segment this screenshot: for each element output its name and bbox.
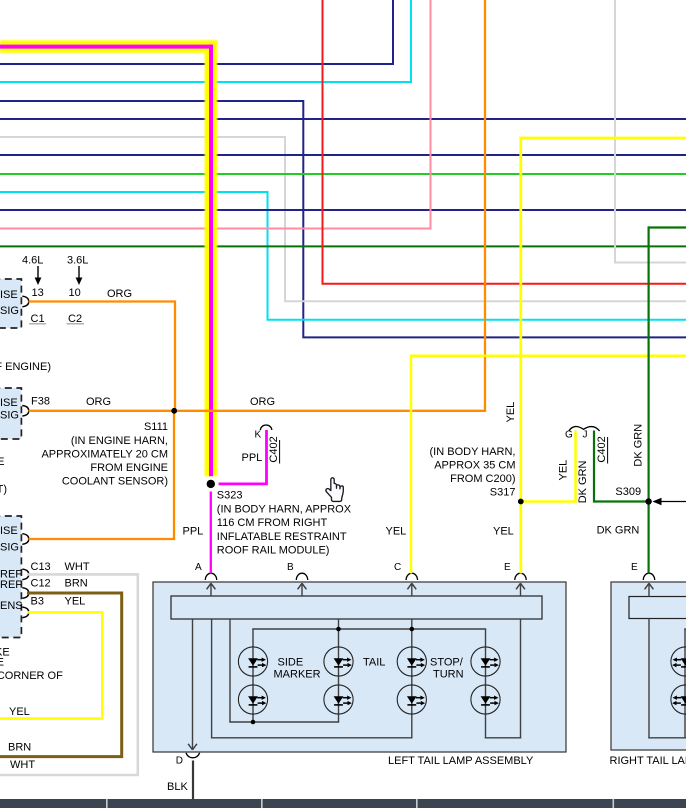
svg-text:S323: S323 xyxy=(217,490,243,502)
svg-text:ROOF RAIL MODULE): ROOF RAIL MODULE) xyxy=(217,544,330,556)
svg-text:TAIL: TAIL xyxy=(363,657,385,669)
svg-text:YEL: YEL xyxy=(558,460,570,481)
svg-text:LEFT TAIL LAMP ASSEMBLY: LEFT TAIL LAMP ASSEMBLY xyxy=(388,755,534,767)
svg-text:YEL: YEL xyxy=(65,596,86,608)
svg-text:D: D xyxy=(176,756,183,767)
svg-text:APPROXIMATELY 20 CM: APPROXIMATELY 20 CM xyxy=(41,448,168,460)
svg-text:E: E xyxy=(504,562,511,573)
svg-text:ORG: ORG xyxy=(86,396,111,408)
svg-text:REF: REF xyxy=(0,579,22,591)
svg-text:13: 13 xyxy=(32,287,44,299)
svg-text:DK GRN: DK GRN xyxy=(597,525,640,537)
svg-text:PPL: PPL xyxy=(183,526,204,538)
svg-text:BRN: BRN xyxy=(65,578,88,590)
svg-text:K: K xyxy=(255,430,262,441)
svg-text:FROM C200): FROM C200) xyxy=(450,473,515,485)
svg-text:E: E xyxy=(0,657,4,669)
svg-text:4.6L: 4.6L xyxy=(22,255,43,267)
svg-text:S317: S317 xyxy=(490,487,516,499)
svg-text:S111: S111 xyxy=(144,421,168,433)
svg-text:ISE: ISE xyxy=(0,525,18,537)
svg-text:APPROX 35 CM: APPROX 35 CM xyxy=(434,459,515,471)
svg-text:WHT: WHT xyxy=(10,759,35,771)
svg-text:C402: C402 xyxy=(596,436,608,462)
svg-text:(IN ENGINE HARN,: (IN ENGINE HARN, xyxy=(71,435,168,447)
svg-text:PPL: PPL xyxy=(242,452,263,464)
svg-text:ORG: ORG xyxy=(250,396,275,408)
svg-text:C402: C402 xyxy=(268,436,280,462)
svg-text:10: 10 xyxy=(69,287,81,299)
svg-text:C12: C12 xyxy=(31,578,51,590)
svg-text:COOLANT SENSOR): COOLANT SENSOR) xyxy=(62,476,168,488)
svg-text:YEL: YEL xyxy=(386,526,407,538)
svg-text:SIG: SIG xyxy=(0,305,19,317)
svg-text:3.6L: 3.6L xyxy=(67,255,88,267)
svg-text:SIG: SIG xyxy=(0,542,19,554)
svg-text:B: B xyxy=(287,562,294,573)
svg-text:(IN BODY HARN, APPROX: (IN BODY HARN, APPROX xyxy=(217,504,352,516)
svg-text:B3: B3 xyxy=(31,596,44,608)
svg-text:RIGHT TAIL LAMP ASSEMBLY: RIGHT TAIL LAMP ASSEMBLY xyxy=(610,755,686,767)
svg-text:DK GRN: DK GRN xyxy=(633,424,645,467)
svg-text:T): T) xyxy=(0,484,7,496)
svg-text:BLK: BLK xyxy=(167,781,188,793)
svg-text:YEL: YEL xyxy=(9,706,30,718)
svg-text:A: A xyxy=(195,562,202,573)
svg-text:F ENGINE): F ENGINE) xyxy=(0,361,51,373)
svg-text:116 CM FROM RIGHT: 116 CM FROM RIGHT xyxy=(217,517,328,529)
svg-text:CORNER OF: CORNER OF xyxy=(0,670,63,682)
svg-text:YEL: YEL xyxy=(505,402,517,423)
svg-text:DK GRN: DK GRN xyxy=(577,460,589,503)
svg-text:E: E xyxy=(631,562,638,573)
svg-text:C1: C1 xyxy=(31,313,45,325)
svg-text:WHT: WHT xyxy=(65,561,90,573)
svg-text:STOP/: STOP/ xyxy=(430,657,464,669)
svg-text:SIDE: SIDE xyxy=(278,657,304,669)
svg-text:G: G xyxy=(565,430,573,441)
svg-text:MARKER: MARKER xyxy=(274,669,321,681)
svg-text:ISE: ISE xyxy=(0,289,18,301)
svg-text:ENS: ENS xyxy=(0,600,23,612)
svg-text:(IN BODY HARN,: (IN BODY HARN, xyxy=(430,446,516,458)
svg-text:C2: C2 xyxy=(68,313,82,325)
svg-text:J: J xyxy=(583,430,588,441)
svg-text:S309: S309 xyxy=(615,486,641,498)
svg-text:C13: C13 xyxy=(31,561,51,573)
svg-text:INFLATABLE RESTRAINT: INFLATABLE RESTRAINT xyxy=(217,531,347,543)
svg-text:F38: F38 xyxy=(31,396,50,408)
svg-text:TURN: TURN xyxy=(433,669,464,681)
svg-text:BRN: BRN xyxy=(8,742,31,754)
svg-text:E: E xyxy=(0,456,5,468)
svg-text:C: C xyxy=(394,562,401,573)
svg-text:SIG: SIG xyxy=(0,410,19,422)
svg-text:FROM ENGINE: FROM ENGINE xyxy=(90,462,168,474)
svg-text:YEL: YEL xyxy=(493,526,514,538)
svg-text:ISE: ISE xyxy=(0,397,18,409)
svg-text:ORG: ORG xyxy=(107,288,132,300)
